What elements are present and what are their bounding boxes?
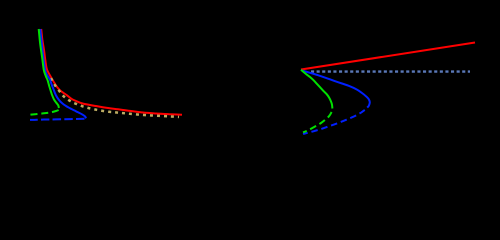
left plot: red solid curve (stable branch, no fold) [41, 29, 182, 115]
right plot: blue solid middle branch [302, 70, 370, 107]
right plot: steel-blue dotted horizontal line [311, 70, 470, 72]
left plot: green dashed lower branch [28, 110, 59, 115]
right plot: red solid upper branch [301, 43, 475, 70]
left plot: tan dotted curve [51, 78, 179, 117]
left plot: green solid upper branch [39, 29, 59, 108]
right plot: blue dashed unstable branch [303, 110, 365, 134]
chart: two bifurcation-diagram panels on black background [0, 0, 500, 149]
right plot: green dashed unstable branch [303, 112, 332, 132]
left plot: blue solid upper branch [40, 29, 86, 118]
left plot: blue dashed lower branch [30, 119, 85, 120]
right plot: green solid middle branch [301, 70, 332, 109]
